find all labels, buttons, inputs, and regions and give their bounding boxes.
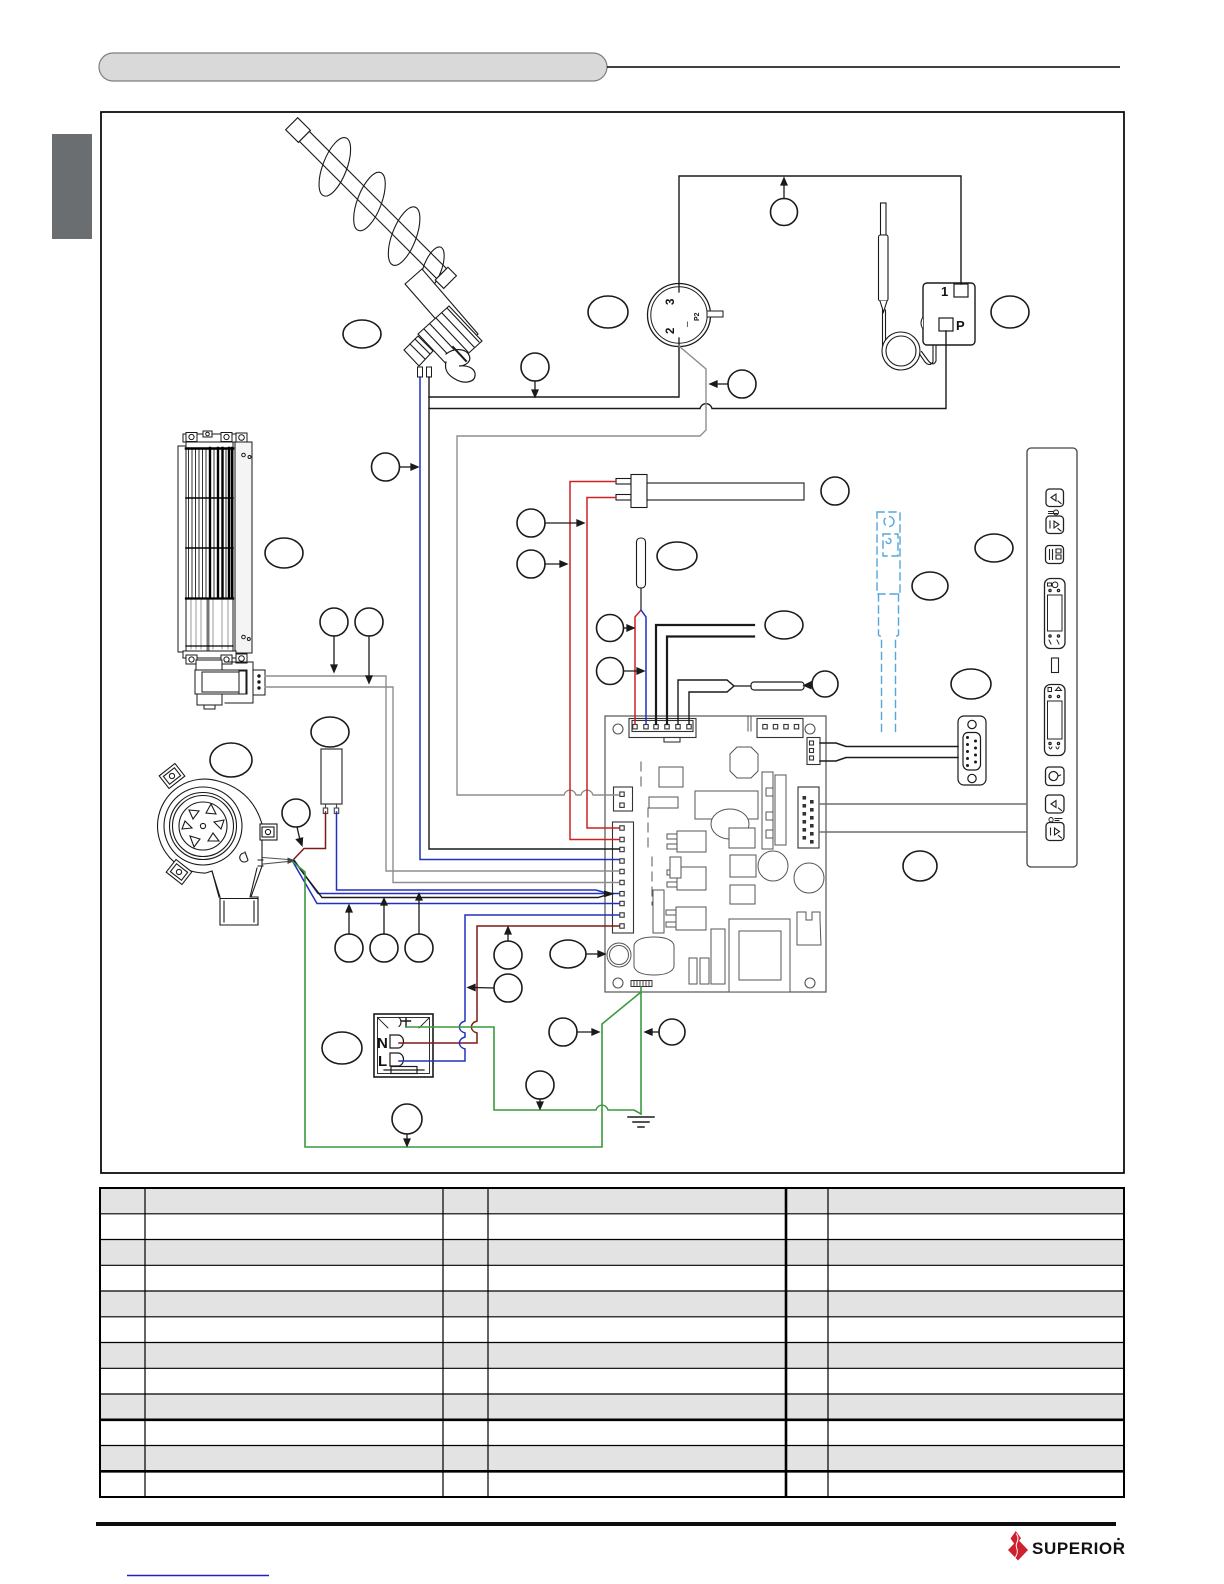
callout oval capacitor [311, 717, 349, 747]
callout circle green right [659, 1019, 685, 1045]
callout arrows [297, 178, 813, 1146]
svg-text:L: L [378, 1053, 387, 1070]
svg-text:N: N [377, 1035, 388, 1052]
header pill bar [99, 53, 607, 81]
callout circle top loop [771, 199, 798, 226]
wire: auger motor blue to board pin 4 [420, 377, 619, 860]
wire: auger motor black down to board pin 3 [429, 377, 619, 849]
language tab [52, 134, 92, 239]
wire: CN1 black pair to thermocouple [656, 625, 754, 724]
connector CN6 16-pin [798, 787, 819, 848]
wire: serial cable to DB9 [820, 743, 958, 747]
callout oval toroid [550, 940, 586, 968]
board ground lug [631, 981, 652, 987]
control panel assembly [1027, 448, 1077, 867]
callout oval probe [657, 542, 697, 570]
auger motor finned body [404, 306, 482, 369]
wire: fan maroon to capacitor [294, 812, 326, 859]
room fan F2 crossflow blower [178, 431, 252, 664]
parts table [100, 1188, 1124, 1497]
exhaust fan F1 housing [158, 779, 263, 925]
wire: green board to ground symbol [640, 992, 642, 1114]
capillary bulb of pressure thermostat [879, 203, 937, 370]
svg-text:P2: P2 [694, 312, 701, 321]
connector CN1 6-pin [629, 719, 696, 743]
panel button: audio left 2 [1046, 795, 1065, 813]
callout circle gear wire 2 [355, 608, 383, 636]
panel rocker lower [1045, 685, 1066, 756]
callout circle gear wire 1 [320, 608, 348, 636]
high-limit thermostat TA [648, 284, 724, 347]
run capacitor C1 [321, 749, 342, 804]
callout circle auger wire [521, 353, 549, 381]
igniter R1 [616, 475, 804, 508]
callout oval thermocouple [765, 611, 803, 639]
connector CN5 10-pin [613, 822, 634, 933]
callout oval panel top [975, 534, 1013, 562]
wire: capacitor blue to board pin 7 [337, 812, 620, 894]
crimp arrow at pin 7 [604, 891, 615, 898]
callout circle blue wire [372, 453, 400, 481]
gear motor M2 of room fan [195, 660, 265, 709]
callout oval exhaust fan [210, 743, 252, 777]
wire: auger motor to thermostat 2 (black) [429, 346, 679, 397]
mains power inlet with fuse [374, 1014, 433, 1077]
svg-text:SUPERIOR: SUPERIOR [1032, 1539, 1126, 1558]
callout circle probe red [597, 615, 624, 642]
header rule line [607, 66, 1120, 68]
callout circle mains blue [494, 974, 522, 1002]
wire: fan blue to crimp pin 7 [294, 860, 608, 894]
ground symbol [628, 1117, 654, 1127]
panel button: audio left [1046, 489, 1064, 507]
auger motor terminal pins [418, 367, 423, 377]
panel button: feed right 2 [1046, 823, 1064, 841]
wire: panel cable upper [819, 803, 1027, 805]
exhaust fan lead crimp [263, 858, 288, 865]
wire: gear motor gray 1 to board pin 5 [265, 676, 619, 871]
serial connector DB9 [958, 716, 986, 785]
panel rocker upper [1045, 579, 1066, 649]
schematic frame [101, 112, 1124, 1173]
callout circle fan maroon [282, 799, 310, 827]
connector CN2 4-pin [757, 719, 803, 738]
footer link underline [127, 1575, 269, 1577]
callout oval flue probe [912, 572, 948, 600]
auger M1 screw and flights [268, 100, 473, 305]
wire: gear motor gray 2 to board pin 6 [265, 687, 619, 883]
panel indicator marks 2 [1049, 818, 1062, 822]
callout circle probe blue [597, 658, 624, 685]
svg-text:–: – [682, 321, 693, 327]
callout oval pressure switch [991, 296, 1029, 328]
auger gearmotor housing [405, 269, 478, 349]
flue probe (optional, dashed) [877, 512, 900, 736]
connector CN3 serial 3-pin [807, 738, 820, 765]
callout oval thermostat [588, 296, 628, 328]
panel button: feed right [1046, 516, 1064, 534]
exhaust fan mounting tabs [159, 764, 277, 885]
callout circle ground bottom [392, 1104, 422, 1134]
wire: mains L (blue) to board pin 9 [399, 915, 619, 1061]
spade terminal link [734, 685, 751, 687]
connector CN4 2-pin [614, 787, 633, 811]
callout circle igniter red 1 [517, 509, 545, 537]
panel led window [1052, 658, 1059, 673]
panel button: cycle [1046, 767, 1065, 786]
svg-text:2: 2 [665, 328, 677, 334]
callout circle ground mid [526, 1071, 554, 1099]
wire: pressure switch P to auger wire (black) [429, 331, 946, 409]
callout circle bundle 1 [335, 934, 363, 962]
callout circle mains maroon [494, 941, 522, 969]
callout bubbles [210, 199, 1029, 1135]
panel button: set [1046, 546, 1064, 564]
callout circle bundle 3 [405, 934, 433, 962]
callout circle igniter [821, 477, 849, 505]
callout circle bundle 2 [370, 934, 398, 962]
wire: igniter red upper to board pin 2 [570, 482, 619, 840]
wire: fan black to crimp pin 7 [294, 861, 608, 898]
footer rule [96, 1522, 1116, 1526]
callout circle gray wire [728, 370, 756, 398]
callout oval mains inlet [322, 1032, 362, 1064]
capacitor leads [323, 804, 338, 814]
callout oval panel low [903, 851, 937, 881]
wire: green ground loop from board [293, 862, 641, 1147]
panel indicator marks [1049, 510, 1059, 515]
wire: room probe blue to CN1 [641, 610, 646, 724]
room temperature probe [637, 538, 646, 588]
wire: room probe red to CN1 [635, 610, 641, 724]
callout circle green left [549, 1018, 577, 1046]
callout circle igniter red 2 [517, 550, 545, 578]
wire: thermostat 2 to board CN4 (gray) [457, 346, 706, 795]
auger motor shaft stub [453, 347, 466, 361]
wire: green from mains inlet [406, 1027, 641, 1114]
callout oval room fan [265, 538, 303, 568]
svg-text:1: 1 [941, 284, 948, 299]
wire: CN1 to spade terminal pair [678, 680, 734, 724]
auger motor cooling fan blade [445, 350, 475, 383]
callout oval auger [343, 320, 381, 348]
callout circle spade [812, 671, 838, 697]
wire: mains N (maroon) to board pin 10 [399, 926, 619, 1043]
board components [607, 747, 824, 992]
wire: panel cable lower [819, 831, 1027, 833]
pressure switch / thermostat box [921, 283, 975, 345]
Superior logo flame [1011, 1531, 1022, 1546]
spade receptacle [751, 682, 804, 690]
board mounting holes [613, 724, 815, 988]
control board U1 outline [605, 716, 826, 992]
svg-text:P: P [956, 318, 965, 333]
probe lead [640, 588, 642, 610]
board top notch [748, 716, 751, 731]
wire: fan blue 2 to board pin 8 [293, 862, 619, 904]
wire: thermostat 3 to pressure switch 1 [679, 176, 961, 284]
svg-text:3: 3 [665, 299, 677, 305]
callout oval db9 [951, 669, 991, 699]
wire: igniter red lower to board pin 1 [587, 498, 619, 829]
